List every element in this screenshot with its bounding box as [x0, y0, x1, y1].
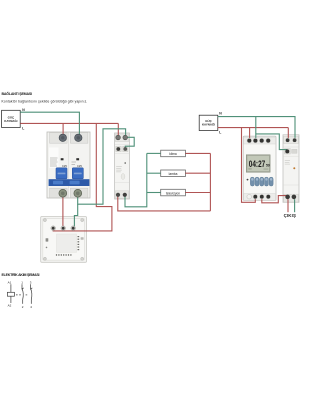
- svg-text:A2: A2: [8, 304, 12, 308]
- svg-text:L: L: [22, 126, 24, 130]
- svg-text:KAYNAĞI: KAYNAĞI: [202, 122, 215, 127]
- svg-text:KAYNAĞI: KAYNAĞI: [4, 118, 17, 123]
- svg-text:C25: C25: [77, 164, 82, 168]
- svg-text:klima: klima: [169, 152, 177, 156]
- svg-text:BAĞLANTI ŞEMASI: BAĞLANTI ŞEMASI: [2, 91, 33, 96]
- svg-text:lamba: lamba: [169, 172, 178, 176]
- svg-text:Kontaktör bağlantısını şekilde: Kontaktör bağlantısını şekilde görüldüğü…: [2, 100, 88, 104]
- svg-text:televizyon: televizyon: [166, 191, 180, 195]
- svg-text:ELEKTRİK AKIM ŞEMASI: ELEKTRİK AKIM ŞEMASI: [2, 273, 40, 277]
- svg-text:L: L: [219, 131, 221, 135]
- svg-text:04:27: 04:27: [249, 159, 266, 169]
- svg-text:59: 59: [266, 164, 270, 168]
- svg-text:C25: C25: [62, 164, 67, 168]
- svg-text:A1: A1: [8, 281, 12, 285]
- svg-text:ÇIKIŞ: ÇIKIŞ: [284, 213, 296, 218]
